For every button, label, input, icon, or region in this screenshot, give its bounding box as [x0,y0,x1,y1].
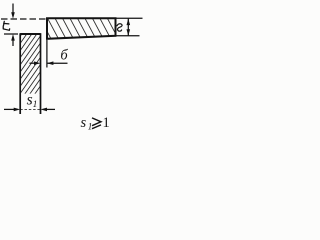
svg-text:1: 1 [103,115,110,131]
centerline (dashed extension of plate B top edge) [1,18,47,20]
svg-text:s: s [81,115,87,131]
extension tick at top of plate A [4,33,18,35]
dimension и (vertical, top-left) [11,4,15,47]
note s1 >= 1 [81,115,110,132]
svg-text:1: 1 [88,122,93,132]
dimension b [30,40,68,68]
dimension s1 (bottom, thickness of plate A) [4,108,55,112]
plate A (vertical sheet, section) [20,33,40,114]
label и (rotated) [3,21,10,30]
plate B (horizontal sheet, section) [47,18,116,39]
label s (rotated) [117,24,122,31]
svg-text:б: б [60,47,68,63]
extension line of plate B left end [46,40,48,68]
dimension s (right, thickness of plate B) [116,18,143,36]
